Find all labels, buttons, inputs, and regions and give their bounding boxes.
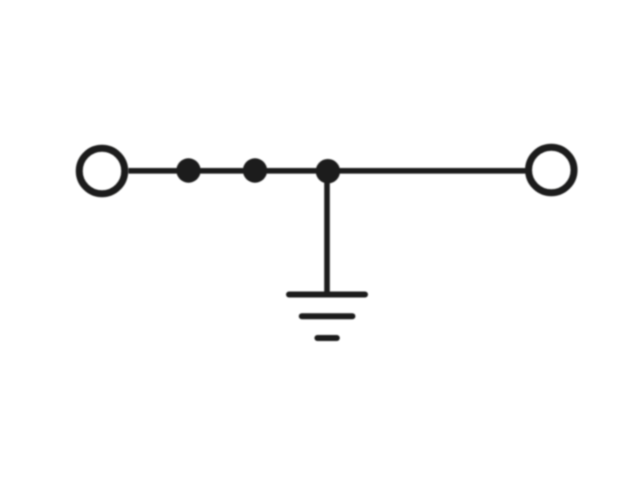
node dot 2 <box>243 158 267 182</box>
terminal circle right <box>529 147 575 193</box>
node dot 1 <box>176 158 200 182</box>
wire vertical <box>324 171 330 295</box>
ground bar top <box>289 292 365 298</box>
terminal circle left <box>79 148 125 194</box>
wire horizontal <box>128 168 525 174</box>
ground bar middle <box>302 313 353 319</box>
ground bar bottom <box>317 335 336 341</box>
junction node dot <box>316 159 340 183</box>
